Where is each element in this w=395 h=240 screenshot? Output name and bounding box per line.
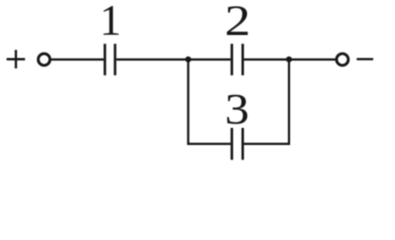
wire [244,58,289,60]
svg-text:3: 3 [225,86,250,133]
wire [51,58,104,60]
svg-text:2: 2 [225,0,251,45]
right terminal [337,54,349,66]
left terminal [38,54,50,66]
svg-text:1: 1 [100,0,122,45]
capacitor C2 [232,44,243,76]
wire [244,60,289,144]
wire [289,58,336,60]
minus terminal label [357,58,374,60]
wire [188,60,230,144]
plus terminal label [7,50,25,69]
capacitor C1 [105,44,115,76]
node A [185,56,191,62]
wire [188,58,230,60]
node B [286,56,292,62]
wire [116,58,188,60]
capacitor C3 [232,128,243,160]
